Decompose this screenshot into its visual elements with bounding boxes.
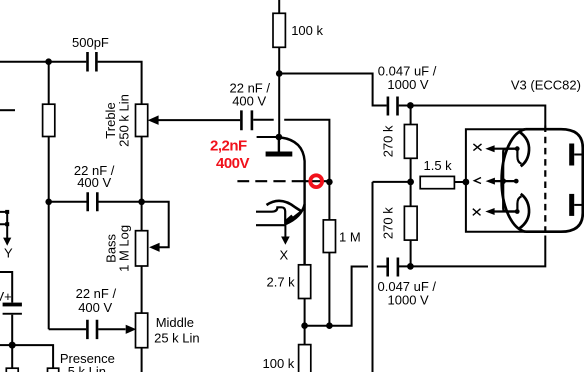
wire bottom node to cap3 (305, 267, 368, 326)
resistor 1.5k (420, 176, 454, 188)
resistor 100k plate (273, 13, 285, 47)
triode V2 plate lead (278, 137, 280, 152)
V3 cathode hook bottom (517, 196, 521, 211)
treble wiper arrow (158, 119, 240, 121)
capacitor electrolytic V+ (3, 303, 22, 307)
wire node down to plate (278, 74, 280, 138)
resistor 1M (328, 182, 330, 220)
triode V2 heater lead 2 (256, 224, 285, 226)
V3 pin marker chevron middle (474, 178, 481, 184)
wire top-left input to 500pF (0, 61, 86, 63)
V3 pin marker x bottom (473, 209, 481, 216)
wire presence right leg (12, 345, 53, 368)
svg-text:100 k: 100 k (263, 356, 295, 371)
V3 arrow middle (494, 180, 516, 182)
wire presence left (0, 344, 12, 346)
wire node to right column (279, 74, 387, 106)
resistor 270k bottom (404, 206, 417, 240)
wire left column middle (48, 137, 50, 330)
svg-text:100 k: 100 k (291, 23, 323, 38)
stub wire 2.2nF to plate node (257, 136, 279, 138)
potentiometer Middle 25k Lin (136, 313, 148, 348)
wire 500pF to treble top (98, 62, 142, 104)
resistor presence left (cut) (6, 368, 18, 372)
svg-text:400 V: 400 V (78, 300, 112, 315)
svg-text:V3 (ECC82): V3 (ECC82) (511, 77, 581, 92)
V3 plate top (569, 144, 574, 166)
heater stub wires left edge (0, 212, 7, 224)
svg-text:400 V: 400 V (232, 94, 266, 109)
wire V+ cap down (11, 315, 13, 369)
node dot presence (9, 342, 16, 349)
wire 22nF row4 (49, 328, 126, 330)
capacitor 0.047uF bottom (388, 258, 398, 277)
resistor 100k bottom (299, 345, 311, 372)
V3 envelope (502, 129, 583, 232)
bass wiper arrow (149, 243, 160, 252)
svg-text:22 nF /: 22 nF / (76, 286, 117, 301)
stub wire at left edge (0, 109, 15, 111)
svg-text:400V: 400V (216, 155, 250, 172)
junction V3 middle lead end (514, 179, 519, 184)
svg-text:1 M Log: 1 M Log (117, 225, 132, 272)
red circle annotation (310, 175, 322, 187)
triode V2 cathode (267, 201, 302, 211)
node dot 1.5k tee (407, 179, 414, 186)
wire middle pot bottom (141, 348, 143, 372)
svg-text:Middle: Middle (156, 315, 194, 330)
node dot grid (326, 179, 333, 186)
svg-text:1000 V: 1000 V (388, 293, 430, 308)
wire left column upper (48, 62, 50, 104)
triode V2 grid dashed (237, 180, 304, 182)
junction on V3 cathode bus (500, 178, 506, 184)
resistor left unlabeled (43, 104, 55, 136)
svg-text:400 V: 400 V (77, 175, 111, 190)
potentiometer Treble 250k Lin (136, 104, 148, 136)
svg-text:500pF: 500pF (72, 35, 109, 50)
svg-text:V+: V+ (0, 289, 12, 304)
middle wiper arrow (126, 325, 137, 334)
svg-text:270 k: 270 k (381, 207, 396, 239)
node dot bass (138, 199, 145, 206)
cathode junction blob (286, 217, 293, 223)
node dots bottom (301, 322, 308, 329)
triode V2: node dot at plate (276, 134, 283, 141)
node dot at 500pF left (45, 58, 52, 65)
wire down to Y arrow (6, 212, 8, 238)
node dot left column at 22nF (45, 199, 52, 206)
resistor 270k top (410, 106, 412, 125)
svg-text:1.5 k: 1.5 k (424, 158, 453, 173)
capacitor 0.047uF top (388, 97, 398, 116)
svg-text:2,2nF: 2,2nF (210, 138, 247, 155)
V3 grid dashed (544, 126, 546, 236)
svg-text:25 k Lin: 25 k Lin (154, 331, 200, 346)
long vertical wire from 1.5k node down (372, 182, 374, 372)
wire 22nF row2 (49, 201, 142, 203)
triode V2 grid lead (305, 180, 330, 182)
arrow X cathode (284, 225, 286, 238)
svg-text:X: X (280, 247, 289, 262)
junction V3 bottom lead end (515, 209, 520, 214)
potentiometer Bass 1M Log (136, 231, 148, 266)
bass wiper L-wire (142, 202, 169, 248)
svg-text:1 M: 1 M (339, 230, 361, 245)
capacitor 22nF/400V row4 (87, 320, 97, 339)
svg-text:0.047 uF /: 0.047 uF / (378, 63, 437, 78)
resistor 2.7k (299, 265, 311, 299)
triode V2 heater (256, 207, 285, 224)
svg-text:Y: Y (4, 245, 13, 260)
svg-text:270 k: 270 k (381, 125, 396, 157)
triode V2 plate bar (266, 152, 293, 157)
svg-text:2.7 k: 2.7 k (267, 275, 296, 290)
wire bass to middle pot (141, 266, 143, 313)
V3 cathode bus (503, 149, 517, 212)
V3 cathode top arc (519, 132, 529, 167)
V3 arrow top (494, 148, 517, 150)
triode V2 cathode diagonal (285, 211, 301, 224)
node dot plate supply (276, 70, 283, 77)
wire cap to grid column (with crossover gap) (253, 120, 329, 182)
capacitor 22nF/400V row2 (88, 192, 98, 211)
V3 arrow bottom (494, 210, 517, 212)
svg-text:1000 V: 1000 V (387, 77, 429, 92)
triode V2 envelope bottom curve (285, 204, 305, 224)
svg-text:5 k Lin: 5 k Lin (68, 364, 106, 372)
wire gap then to cap3 (377, 266, 387, 268)
wire 100k to node (278, 47, 280, 73)
arrow Y (3, 238, 11, 246)
wire top to 100k (278, 0, 280, 13)
triode V2 envelope (281, 138, 305, 265)
capacitor C 500pF (88, 52, 97, 72)
wire to V+ cap (0, 272, 12, 303)
V3 cathode bottom arc (519, 194, 529, 229)
V3 plate bottom (569, 194, 574, 216)
svg-text:250 k Lin: 250 k Lin (117, 94, 132, 147)
V3 socket box (466, 129, 527, 232)
V3 cathode hook top (517, 149, 521, 164)
wire treble bottom to bass node (141, 137, 143, 231)
resistor presence right (cut) (48, 368, 59, 372)
V3 pin marker x top (473, 144, 481, 151)
junction V3 top lead end (515, 146, 520, 151)
wire 1.5k node left (373, 181, 411, 183)
capacitor 22nF/400V mid (241, 110, 252, 130)
